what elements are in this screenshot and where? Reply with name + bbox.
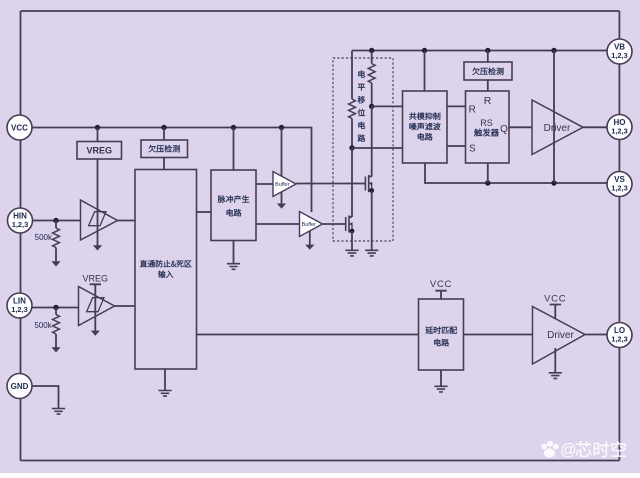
undervoltage detect block (left): [141, 140, 188, 158]
svg-text:R: R: [469, 104, 476, 115]
ground below comparator U2: [93, 245, 102, 250]
ground below delay matcher: [434, 386, 447, 392]
watermark paw icon: [541, 441, 558, 458]
wire HV rail: [352, 50, 607, 52]
wire filter to RS latch R: [447, 105, 466, 107]
wire buffer1 ground stem: [281, 184, 283, 204]
wire right pin rail: [618, 11, 620, 461]
ground below GND pin: [52, 409, 65, 415]
ground below R2: [51, 347, 60, 352]
wire buffer1 output to M1 gate: [296, 183, 365, 185]
wire VREG to comparator U2 supply: [97, 159, 99, 246]
node VCC-pulsegen junction: [231, 125, 236, 130]
wire UV detect drop: [163, 128, 165, 141]
node VCC-VREG junction: [95, 125, 100, 130]
hysteresis symbol U2: [89, 212, 106, 226]
wire buffer2 output to M2 gate: [323, 223, 346, 225]
resistor 500k R1: [55, 221, 57, 229]
pin HIN 1,2,3: [8, 208, 33, 233]
wire VCC tee driver2: [550, 305, 561, 320]
svg-text:1,2,3: 1,2,3: [611, 335, 627, 344]
wire R4 node to M1 drain: [371, 106, 373, 176]
pin LO 1,2,3: [607, 323, 632, 348]
svg-text:Driver: Driver: [544, 123, 571, 134]
RS trigger block: [466, 91, 510, 163]
wire filter supply drop: [424, 51, 426, 92]
ground below driver2: [549, 373, 562, 379]
buffer U4: [273, 172, 296, 197]
svg-text:1,2,3: 1,2,3: [611, 51, 627, 60]
wire HIN input: [33, 220, 81, 222]
wire pulse generator ground: [233, 241, 235, 264]
driver U6 (high side): [532, 100, 583, 155]
wire M2 source to ground: [351, 231, 353, 250]
wire VCC top rail: [21, 10, 620, 12]
wire pulse gen to buffer2: [256, 223, 300, 225]
svg-text:Buffer: Buffer: [275, 182, 289, 188]
node driver1 VS junction: [551, 180, 556, 185]
svg-text:HIN: HIN: [13, 211, 27, 220]
svg-text:LIN: LIN: [13, 296, 26, 305]
buffer U5: [300, 212, 323, 237]
svg-text:Driver: Driver: [547, 330, 574, 341]
ground below R1: [51, 261, 60, 266]
transistor M1 (high-side level shift): [364, 177, 366, 191]
pin HO 1,2,3: [607, 115, 632, 140]
wire driver2 ground stem: [554, 348, 556, 373]
transistor M2 (low-side level shift): [345, 217, 347, 231]
wire VREG supply drop: [97, 128, 99, 142]
wire R4 node to filter R input: [372, 105, 403, 107]
wire pulse generator supply drop: [233, 128, 235, 171]
wire UV detect to logic box: [163, 158, 165, 170]
ground below comparator U3: [91, 331, 100, 336]
undervoltage detect block (high side): [464, 62, 512, 80]
wire GND pin to ground: [33, 386, 59, 409]
resistor 500k R2: [55, 308, 57, 315]
wire VCC tee delay matcher: [435, 291, 446, 299]
svg-text:VCC: VCC: [544, 293, 566, 304]
wire LIN input: [33, 307, 79, 309]
wire left pin rail: [20, 11, 22, 461]
svg-text:1,2,3: 1,2,3: [611, 127, 627, 136]
wire UV high drop from rail: [487, 51, 489, 63]
wire buffer2 ground stem: [309, 231, 311, 246]
node VCC-buffer1 junction: [279, 125, 284, 130]
level shift dashed boundary: [333, 58, 393, 241]
svg-text:500k: 500k: [34, 321, 52, 330]
pin LIN 1,2,3: [7, 293, 32, 318]
label level shift circuit: [358, 70, 365, 77]
wire filter to VS rail: [425, 163, 607, 183]
wire pulse gen to buffer1: [256, 183, 273, 185]
ground below buffer U4: [277, 204, 286, 209]
common-mode noise filter block: [403, 91, 448, 163]
ground below M1: [365, 250, 378, 256]
node HV rail driver1 supply: [551, 48, 556, 53]
svg-text:@: @: [560, 441, 577, 459]
wire driver1 supply through: [553, 51, 555, 184]
wire driver1 output to HO: [583, 126, 607, 128]
pulse generation block: [211, 170, 256, 241]
svg-text:VCC: VCC: [430, 279, 452, 290]
svg-text:Buffer: Buffer: [302, 222, 316, 228]
svg-text:1,2,3: 1,2,3: [12, 220, 28, 229]
wire M1 source to ground: [371, 191, 373, 251]
node RS latch VS junction: [485, 180, 490, 185]
pin VCC: [7, 115, 32, 140]
wire comparator U2 output: [118, 220, 136, 222]
resistor R3 (left level-shift): [351, 51, 353, 100]
shoot-through prevention and dead-band input block: [135, 170, 197, 370]
pin VS 1,2,3: [607, 172, 632, 197]
svg-text:1,2,3: 1,2,3: [11, 305, 27, 314]
svg-text:R: R: [484, 95, 492, 107]
svg-text:VCC: VCC: [11, 123, 28, 132]
wire driver2 output to LO: [585, 334, 608, 336]
wire RS latch bottom to VS rail: [487, 163, 489, 183]
svg-text:Q: Q: [500, 124, 508, 135]
wire VREG tee to comparator U3: [90, 284, 101, 331]
svg-text:GND: GND: [11, 382, 29, 391]
svg-text:LO: LO: [614, 326, 625, 335]
wire logic box ground: [164, 369, 166, 391]
ground below pulse generator: [227, 264, 240, 270]
svg-text:VS: VS: [614, 175, 625, 184]
wire logic box to pulse generator: [197, 211, 212, 213]
svg-text:RS: RS: [480, 118, 493, 128]
ground below M2: [345, 250, 358, 256]
comparator U2 (HIN schmitt): [81, 200, 118, 240]
wire RS latch Q to driver1: [509, 126, 532, 128]
wire logic box to delay matcher: [197, 334, 419, 336]
pin VB 1,2,3: [607, 39, 632, 64]
svg-text:1,2,3: 1,2,3: [611, 184, 627, 193]
node R4 drain: [369, 104, 374, 109]
comparator U3 (LIN schmitt): [79, 287, 115, 326]
node HV rail resistor R4: [369, 48, 374, 53]
svg-text:S: S: [469, 144, 476, 155]
wire delay matcher ground: [440, 370, 442, 386]
node HIN resistor tap: [53, 218, 58, 223]
node R3 drain: [349, 145, 354, 150]
wire R3 node to filter S input: [352, 147, 403, 149]
regulator VREG box: [77, 142, 122, 160]
wire filter to RS latch S: [447, 145, 466, 147]
svg-text:VREG: VREG: [86, 146, 112, 156]
driver U7 (low side): [533, 307, 586, 365]
node HV rail UV detect drop: [485, 48, 490, 53]
wire UV high to RS latch: [487, 80, 489, 91]
wire GND bottom rail: [21, 460, 620, 462]
svg-text:VB: VB: [614, 42, 625, 51]
node VCC-UVdetect junction: [161, 125, 166, 130]
wire buffer1 supply drop: [281, 128, 283, 185]
svg-text:VREG: VREG: [83, 273, 109, 283]
delay matching block: [419, 299, 464, 370]
wire delay matcher to driver2: [464, 334, 533, 336]
ground below logic box: [158, 391, 171, 397]
svg-text:500k: 500k: [35, 233, 53, 242]
svg-text:HO: HO: [614, 118, 626, 127]
ground below buffer U5: [305, 245, 314, 250]
node LIN resistor tap: [53, 305, 58, 310]
wire comparator U3 output: [115, 305, 136, 307]
resistor R4 (right level-shift): [371, 51, 373, 64]
hysteresis symbol U3: [87, 298, 104, 312]
wire VCC rail: [33, 128, 312, 213]
node HV rail filter drop: [422, 48, 427, 53]
wire R3 node to M2 drain: [351, 148, 353, 217]
pin GND: [7, 374, 32, 399]
